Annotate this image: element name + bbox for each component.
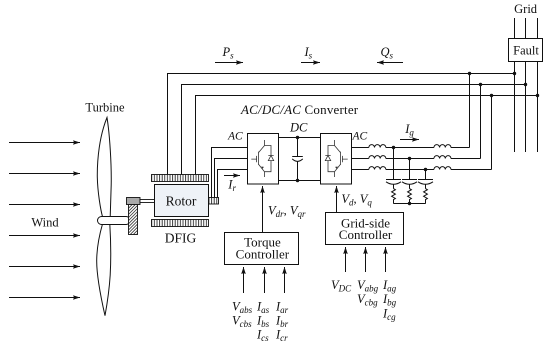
svg-text:AC: AC — [352, 131, 368, 143]
svg-text:DFIG: DFIG — [165, 230, 197, 245]
svg-text:AC: AC — [227, 131, 243, 143]
svg-text:Wind: Wind — [31, 216, 59, 230]
svg-text:Fault: Fault — [513, 44, 539, 58]
svg-text:Grid: Grid — [514, 2, 538, 16]
svg-text:AC/DC/AC Converter: AC/DC/AC Converter — [240, 102, 359, 117]
svg-text:Controller: Controller — [236, 247, 290, 262]
svg-text:Turbine: Turbine — [85, 101, 125, 115]
svg-text:DC: DC — [289, 121, 308, 135]
svg-text:Rotor: Rotor — [166, 193, 197, 208]
svg-text:Controller: Controller — [339, 227, 393, 242]
